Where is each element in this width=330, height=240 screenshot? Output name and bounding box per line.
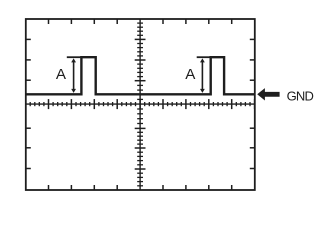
graticule edge tick marks	[26, 19, 255, 190]
svg-text:A: A	[56, 66, 67, 83]
svg-text:A: A	[185, 66, 196, 83]
waveform: baseline with two pulses	[26, 57, 255, 94]
graticule center vertical axis	[135, 19, 146, 190]
dimension arrow pulse 2 (amplitude A)	[201, 61, 203, 90]
GND arrow pointing left at baseline	[257, 88, 279, 100]
extension line pulse 1	[67, 56, 82, 58]
dimension arrow pulse 1 (amplitude A)	[73, 61, 75, 90]
svg-text:GND: GND	[287, 89, 314, 104]
extension line pulse 2	[197, 56, 211, 58]
graticule center horizontal axis	[26, 99, 255, 109]
graticule frame	[26, 19, 255, 190]
